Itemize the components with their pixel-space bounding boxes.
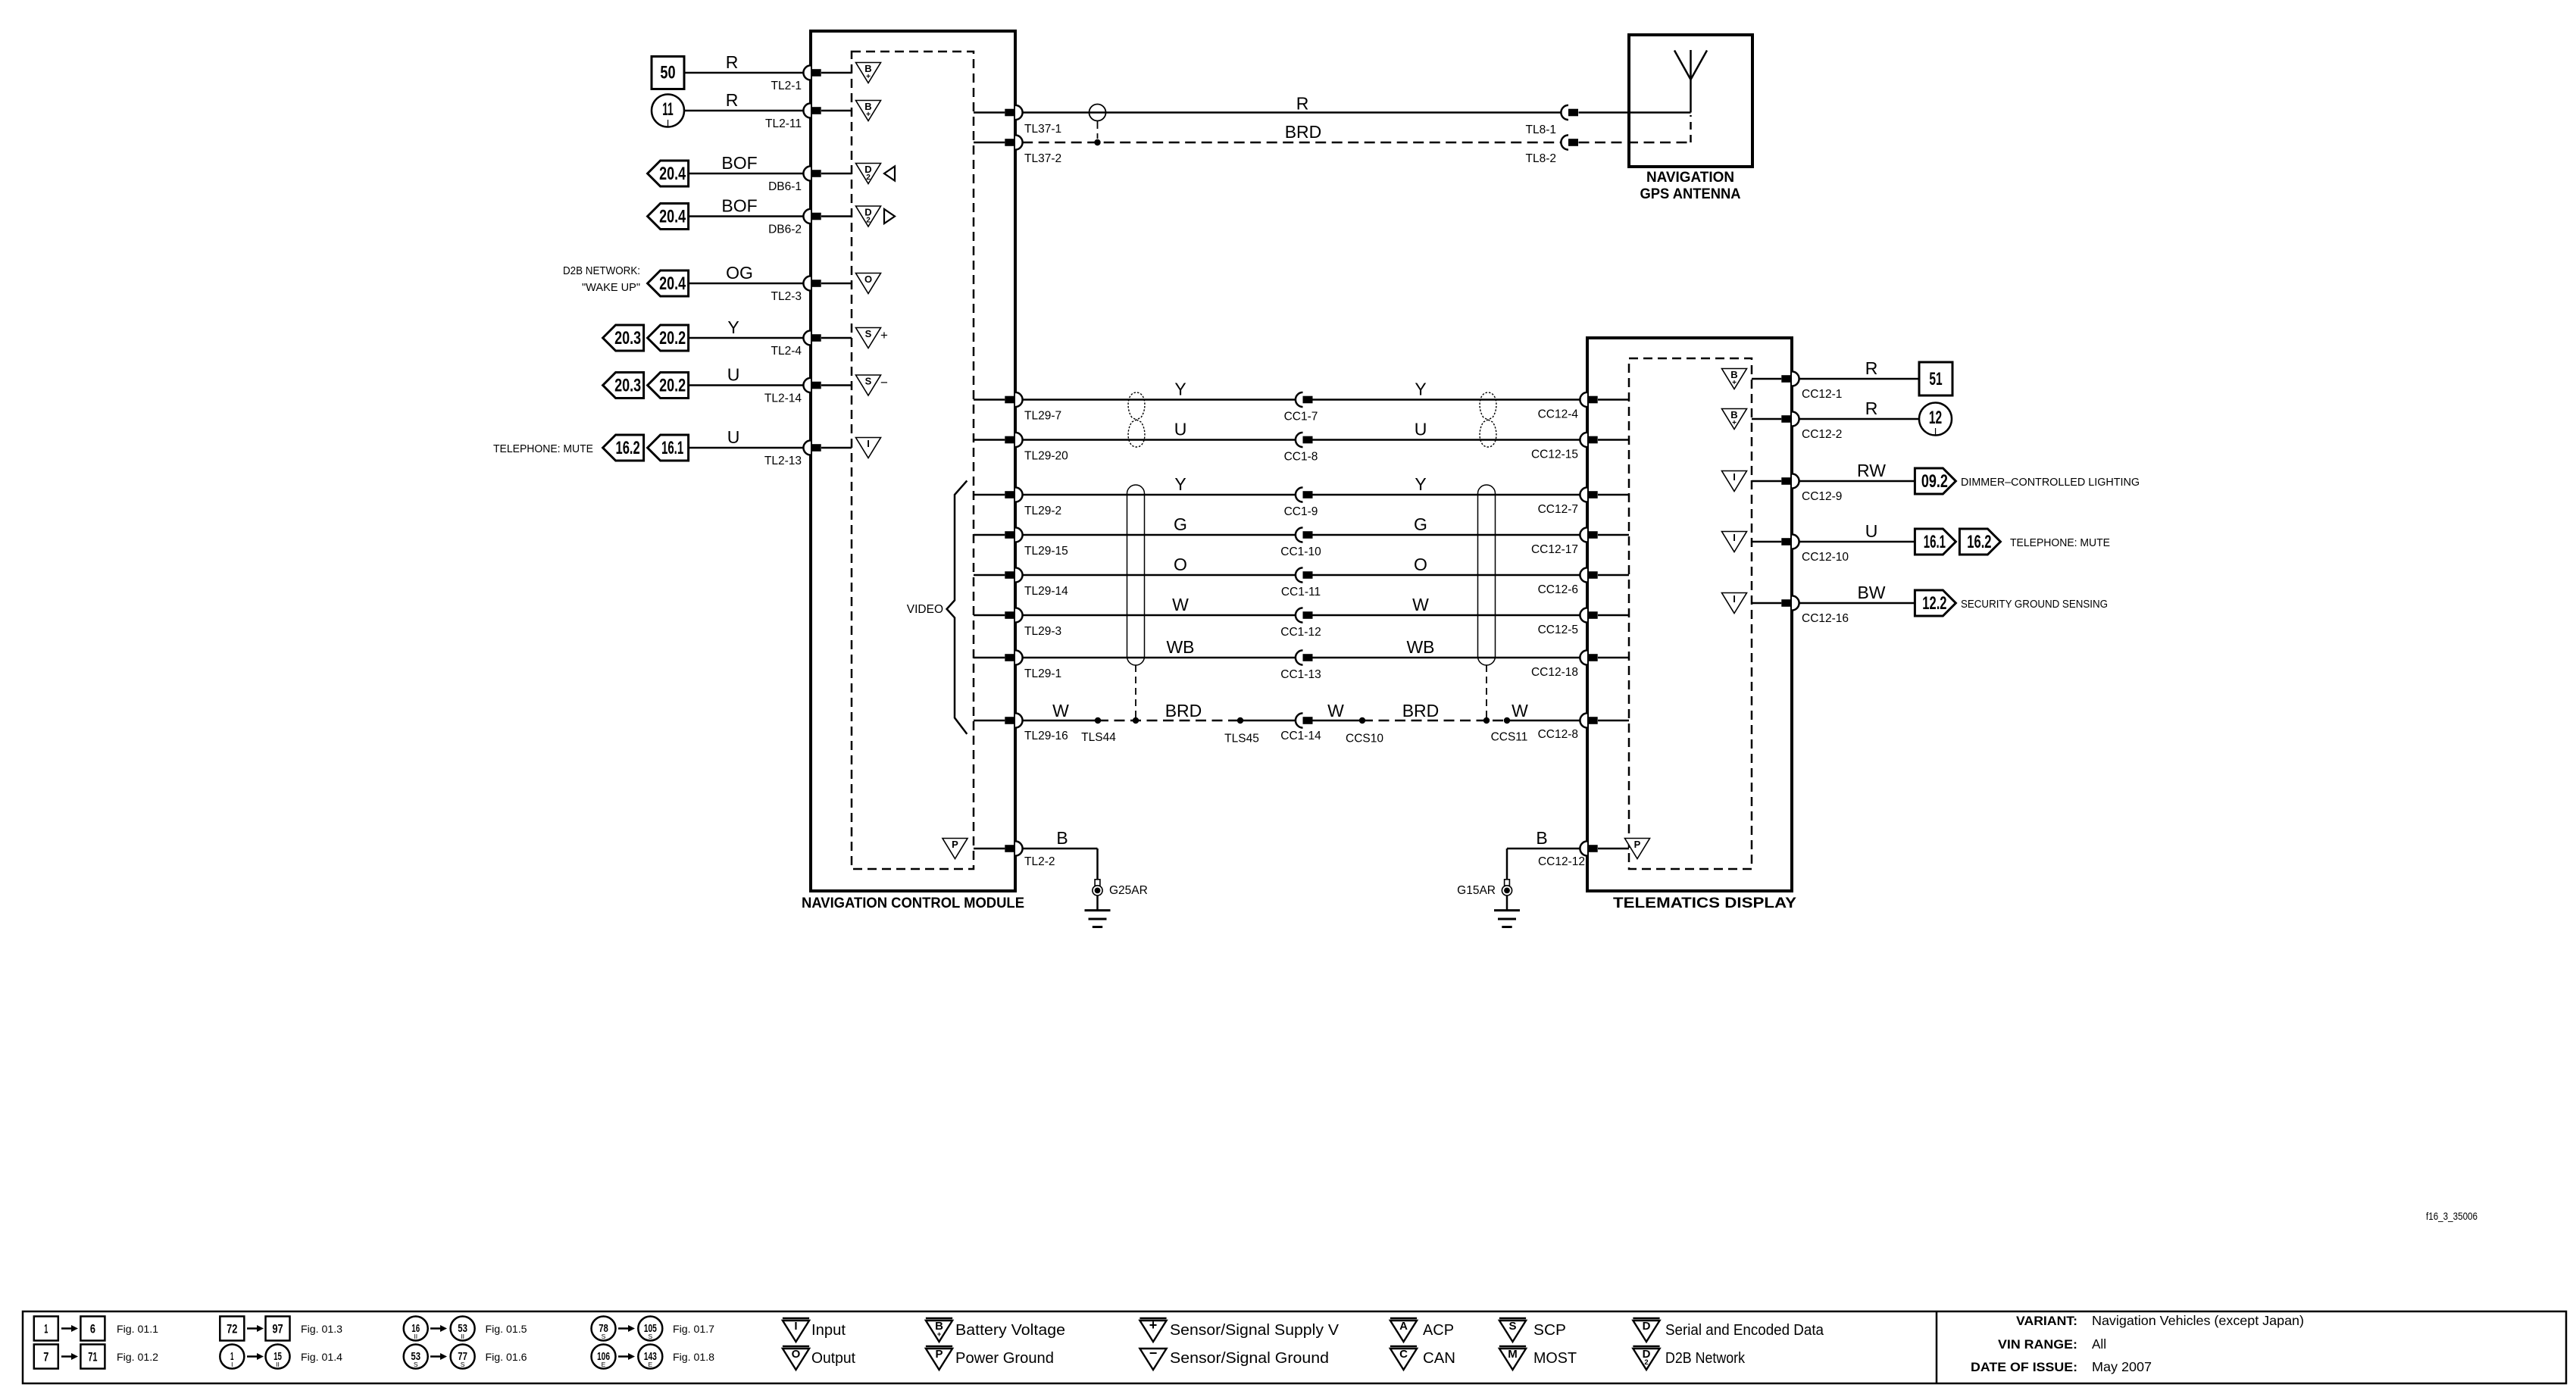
connector CC1-10 [1280, 527, 1321, 558]
svg-text:GPS ANTENNA: GPS ANTENNA [1640, 186, 1741, 202]
telematics display box [1587, 338, 1792, 891]
video brace [907, 481, 968, 734]
svg-text:CC12-1: CC12-1 [1802, 388, 1842, 401]
ground G15AR [1457, 880, 1520, 927]
legend fig 01.7 [592, 1317, 715, 1341]
wire BOF to DB6-2 [689, 196, 803, 217]
svg-text:W: W [1327, 701, 1344, 720]
connector CC1-8 [1284, 433, 1318, 464]
splice TLS44 [1081, 717, 1116, 744]
svg-text:All: All [2092, 1336, 2106, 1352]
navigation control module inner dashed box [852, 52, 974, 869]
svg-text:TL29-7: TL29-7 [1024, 410, 1061, 423]
svg-text:S: S [414, 1361, 418, 1368]
pin TL2-14 [764, 378, 852, 405]
legend bar frame [23, 1311, 2566, 1383]
svg-text:CCS10: CCS10 [1346, 733, 1383, 745]
title navigation control module [802, 895, 1024, 911]
svg-text:S: S [865, 375, 872, 386]
svg-text:CC1-12: CC1-12 [1280, 626, 1321, 639]
wire W TLS45 to CC1-14 [1240, 720, 1296, 722]
legend symbol power ground [926, 1346, 1054, 1370]
svg-text:16.1: 16.1 [1924, 532, 1946, 552]
svg-text:50: 50 [660, 63, 675, 83]
svg-text:20.4: 20.4 [659, 207, 686, 227]
svg-text:Y: Y [727, 317, 739, 337]
wire BRD TL37-2 to TL8-2 (dashed) [1022, 122, 1561, 142]
svg-text:CC12-12: CC12-12 [1538, 855, 1585, 868]
connector CC1-7 [1284, 392, 1318, 424]
svg-text:Y: Y [1174, 474, 1186, 494]
svg-text:CC12-4: CC12-4 [1538, 408, 1579, 421]
svg-text:Navigation Vehicles (except Ja: Navigation Vehicles (except Japan) [2092, 1313, 2304, 1328]
legend fig 01.1 [34, 1317, 158, 1341]
svg-text:f16_3_35006: f16_3_35006 [2426, 1211, 2478, 1222]
svg-text:72: 72 [227, 1322, 237, 1336]
pin CC12-2 [1752, 411, 1842, 441]
svg-text:Power Ground: Power Ground [955, 1350, 1054, 1367]
svg-text:TL29-16: TL29-16 [1024, 730, 1068, 742]
wire Y to TL2-4 [689, 317, 803, 338]
symbol O at TL2-3 [856, 273, 881, 294]
svg-text:CC1-9: CC1-9 [1284, 505, 1318, 518]
svg-text:I: I [1733, 471, 1736, 483]
connector CC1-9 [1284, 487, 1318, 518]
wire U from CC12-10 [1799, 521, 1915, 542]
svg-text:+: + [866, 111, 871, 119]
svg-text:NAVIGATION CONTROL MODULE: NAVIGATION CONTROL MODULE [802, 895, 1024, 911]
wire W CC1-12 to CC12-5 [1313, 595, 1580, 615]
wire U to TL2-13 [689, 427, 803, 448]
svg-text:RW: RW [1857, 461, 1886, 480]
wire R TL37-1 to TL8-1 [1022, 94, 1561, 114]
pin CC12-9 [1752, 474, 1842, 503]
svg-text:II: II [414, 1333, 417, 1340]
svg-text:71: 71 [88, 1350, 97, 1364]
wire O TL29-14 to CC1-11 [1022, 555, 1296, 575]
pin CC12-12 [1538, 841, 1629, 868]
wire BOF to DB6-1 [689, 153, 803, 173]
pin CC12-1 [1752, 371, 1842, 401]
svg-text:TL2-13: TL2-13 [764, 455, 802, 467]
svg-text:D: D [1643, 1320, 1651, 1333]
legend symbol most [1499, 1346, 1577, 1370]
pin CC12-8 [1538, 713, 1629, 741]
pin CC12-15 [1531, 433, 1629, 461]
svg-text:09.2: 09.2 [1921, 471, 1948, 492]
wire R to TL2-1 [684, 52, 803, 73]
svg-text:+: + [937, 1330, 942, 1339]
pin TL37-1 [974, 105, 1061, 136]
svg-text:Fig. 01.3: Fig. 01.3 [301, 1323, 342, 1335]
svg-text:6: 6 [90, 1322, 95, 1336]
legend fig 01.8 [592, 1345, 715, 1369]
svg-text:I: I [1934, 426, 1937, 437]
wire R from CC12-2 [1799, 399, 1919, 419]
symbol I at CC12-16 [1722, 593, 1747, 614]
svg-text:B: B [1536, 828, 1547, 848]
svg-text:B: B [1056, 828, 1068, 848]
pin TL29-15 [974, 527, 1068, 558]
wire U to TL2-14 [689, 365, 803, 386]
pin TL29-16 [974, 713, 1068, 742]
svg-text:CC1-11: CC1-11 [1281, 586, 1321, 599]
svg-text:−: − [1149, 1346, 1158, 1361]
svg-text:CAN: CAN [1423, 1350, 1455, 1367]
page arrows 20.3 20.2 (TL2-4) [603, 325, 689, 351]
svg-text:TL2-14: TL2-14 [764, 392, 802, 405]
legend symbol scp [1499, 1318, 1566, 1342]
wire BRD inside antenna box (dashed) [1579, 115, 1691, 142]
wire G TL29-15 to CC1-10 [1022, 514, 1296, 535]
symbol D2 at DB6-2 [856, 206, 881, 227]
svg-text:Y: Y [1415, 474, 1426, 494]
wire G CC1-10 to CC12-17 [1313, 514, 1580, 535]
svg-text:CCS11: CCS11 [1491, 731, 1528, 744]
legend symbol sensor ground [1140, 1346, 1329, 1370]
svg-text:NAVIGATION: NAVIGATION [1646, 170, 1734, 186]
wire B TL2-2 to G25AR [1022, 828, 1097, 880]
svg-text:P: P [952, 839, 958, 850]
svg-text:VIDEO: VIDEO [907, 603, 943, 616]
pin TL2-2 [974, 841, 1055, 868]
svg-text:20.4: 20.4 [659, 164, 686, 184]
wire W TL29-3 to CC1-12 [1022, 595, 1296, 615]
svg-text:R: R [1865, 399, 1878, 418]
legend symbol acp [1390, 1318, 1454, 1342]
svg-text:U: U [727, 427, 740, 447]
legend fig 01.2 [34, 1345, 158, 1369]
title navigation gps antenna [1640, 170, 1741, 202]
legend symbol can [1390, 1346, 1455, 1370]
svg-text:97: 97 [272, 1322, 283, 1336]
splice CCS10 [1346, 717, 1383, 745]
svg-text:TELEPHONE: MUTE: TELEPHONE: MUTE [2010, 536, 2110, 549]
svg-text:CC12-5: CC12-5 [1538, 624, 1578, 636]
svg-text:TL2-4: TL2-4 [771, 345, 802, 358]
svg-text:CC12-7: CC12-7 [1538, 503, 1578, 516]
svg-text:May 2007: May 2007 [2092, 1359, 2152, 1374]
svg-text:20.2: 20.2 [659, 376, 686, 396]
svg-text:W: W [1412, 595, 1429, 614]
svg-text:BOF: BOF [721, 153, 757, 173]
symbol B+ at TL2-11 [856, 101, 881, 121]
svg-text:Y: Y [1174, 380, 1186, 399]
svg-text:DIMMER–CONTROLLED LIGHTING: DIMMER–CONTROLLED LIGHTING [1961, 476, 2140, 489]
svg-text:CC12-18: CC12-18 [1531, 666, 1578, 679]
text TELEPHONE MUTE left [493, 442, 593, 455]
wire R from CC12-1 [1799, 358, 1919, 379]
svg-text:TL29-14: TL29-14 [1024, 585, 1068, 598]
svg-text:Fig. 01.5: Fig. 01.5 [486, 1323, 527, 1335]
pin TL2-11 [765, 103, 852, 130]
pin TL29-14 [974, 567, 1068, 598]
legend fig 01.4 [220, 1345, 342, 1369]
svg-text:O: O [1414, 555, 1427, 574]
svg-text:E: E [648, 1361, 652, 1368]
svg-text:II: II [276, 1361, 280, 1368]
symbol B+ at CC12-1 [1722, 369, 1747, 389]
svg-text:ACP: ACP [1423, 1322, 1454, 1339]
svg-text:U: U [1865, 521, 1878, 541]
svg-text:CC1-10: CC1-10 [1280, 545, 1321, 558]
twisted pair symbol left [1128, 392, 1145, 447]
connector CC1-11 [1281, 567, 1321, 599]
power feed box 51 [1919, 362, 1952, 395]
arrowhead left at DB6-1 [884, 167, 895, 181]
variant block [1971, 1313, 2304, 1374]
legend fig 01.5 [404, 1317, 527, 1341]
svg-text:Serial and Encoded Data: Serial and Encoded Data [1665, 1322, 1824, 1339]
pin TL29-2 [974, 487, 1061, 517]
pin TL29-7 [974, 392, 1061, 423]
svg-text:I: I [667, 117, 670, 129]
svg-text:SECURITY GROUND SENSING: SECURITY GROUND SENSING [1961, 598, 2108, 611]
svg-text:2: 2 [1644, 1358, 1648, 1367]
svg-text:Fig. 01.7: Fig. 01.7 [673, 1323, 714, 1335]
legend fig 01.3 [220, 1317, 342, 1341]
svg-text:Fig. 01.8: Fig. 01.8 [673, 1351, 714, 1363]
svg-text:S: S [1508, 1320, 1516, 1333]
pin CC12-7 [1538, 487, 1629, 516]
pin TL2-4 [771, 330, 852, 358]
wire BRD TLS44 to TLS45 (dashed) [1098, 701, 1240, 720]
svg-text:+: + [1732, 379, 1737, 387]
svg-text:−: − [880, 376, 888, 390]
page arrow 20.4 (TL2-3) [648, 270, 689, 296]
splice CCS11 [1491, 717, 1528, 744]
svg-text:20.3: 20.3 [614, 328, 641, 348]
pin DB6-1 [768, 166, 852, 193]
svg-text:TL29-1: TL29-1 [1024, 667, 1061, 680]
svg-text:TL29-2: TL29-2 [1024, 505, 1061, 517]
connector CC1-12 [1280, 608, 1321, 639]
svg-text:20.2: 20.2 [659, 328, 686, 348]
svg-text:G25AR: G25AR [1109, 884, 1148, 897]
symbol B+ at TL2-1 [856, 63, 881, 83]
svg-text:Fig. 01.2: Fig. 01.2 [117, 1351, 158, 1363]
svg-text:16.1: 16.1 [661, 438, 683, 458]
title telematics display [1613, 895, 1796, 911]
svg-text:VARIANT:: VARIANT: [2016, 1314, 2077, 1328]
svg-text:Battery Voltage: Battery Voltage [955, 1322, 1065, 1339]
svg-text:2: 2 [866, 173, 871, 182]
connector TL8-2 [1526, 135, 1579, 165]
svg-text:CC12-15: CC12-15 [1531, 449, 1578, 461]
navigation control module box [811, 31, 1015, 891]
svg-text:+: + [1149, 1317, 1158, 1333]
pin TL29-3 [974, 608, 1061, 638]
svg-text:TL37-1: TL37-1 [1024, 123, 1061, 136]
svg-text:12: 12 [1929, 408, 1942, 428]
svg-text:S: S [865, 328, 872, 339]
svg-text:P: P [935, 1348, 943, 1361]
wire WB CC1-13 to CC12-18 [1313, 637, 1580, 658]
svg-text:P: P [1634, 839, 1641, 850]
svg-text:WB: WB [1166, 637, 1194, 657]
navigation gps antenna box [1629, 35, 1752, 167]
connector CC1-13 [1280, 650, 1321, 681]
svg-text:CC12-2: CC12-2 [1802, 428, 1842, 441]
page arrow 12.2 security ground sensing [1915, 590, 2108, 616]
page arrow 09.2 dimmer [1915, 468, 2140, 494]
svg-text:BOF: BOF [721, 196, 757, 216]
page arrow 20.4 (DB6-1) [648, 161, 689, 186]
pin TL2-1 [771, 65, 852, 92]
svg-text:DB6-2: DB6-2 [768, 223, 802, 236]
pin DB6-2 [768, 209, 852, 236]
svg-text:D2B Network: D2B Network [1665, 1350, 1746, 1367]
svg-text:TLS45: TLS45 [1224, 733, 1259, 745]
telematics display inner dashed box [1629, 358, 1752, 869]
svg-text:20.3: 20.3 [614, 376, 641, 396]
svg-text:II: II [461, 1333, 464, 1340]
page arrows 16.1 16.2 telephone mute [1915, 529, 2110, 555]
svg-text:+: + [1732, 419, 1737, 427]
legend symbol d2b network [1633, 1346, 1745, 1370]
pin CC12-4 [1538, 392, 1629, 421]
page arrows 16.2 16.1 (TL2-13) [603, 435, 689, 461]
svg-text:7: 7 [43, 1350, 48, 1364]
svg-text:TL2-1: TL2-1 [771, 80, 802, 92]
symbol B+ at CC12-2 [1722, 409, 1747, 430]
twisted pair symbol right [1480, 392, 1496, 447]
svg-text:20.4: 20.4 [659, 273, 686, 294]
power feed circle 11 [652, 95, 684, 130]
svg-text:TL29-3: TL29-3 [1024, 625, 1061, 638]
svg-text:R: R [1296, 94, 1309, 114]
shield capsule right [1478, 485, 1496, 724]
svg-text:Fig. 01.4: Fig. 01.4 [301, 1351, 342, 1363]
symbol I at CC12-9 [1722, 471, 1747, 492]
wire B CC12-12 to G15AR [1507, 828, 1580, 880]
svg-text:VIN RANGE:: VIN RANGE: [1998, 1337, 2077, 1352]
wire R inside antenna box [1579, 111, 1691, 114]
wire U TL29-20 to CC1-8 [1022, 420, 1296, 440]
wire Y TL29-7 to CC1-7 [1022, 380, 1296, 400]
text D2B NETWORK WAKE UP [563, 264, 640, 294]
svg-text:U: U [1174, 420, 1187, 439]
svg-text:S: S [648, 1333, 652, 1340]
figure number [2426, 1211, 2478, 1222]
svg-text:U: U [1415, 420, 1427, 439]
svg-text:Input: Input [811, 1322, 846, 1339]
svg-text:Fig. 01.1: Fig. 01.1 [117, 1323, 158, 1335]
svg-text:TL2-11: TL2-11 [765, 117, 802, 130]
svg-text:Sensor/Signal Supply V: Sensor/Signal Supply V [1170, 1322, 1340, 1339]
svg-text:U: U [727, 365, 740, 385]
symbol S+ at TL2-4 [856, 328, 889, 348]
svg-text:2: 2 [866, 217, 871, 225]
wire OG to TL2-3 [689, 263, 803, 283]
svg-text:11: 11 [662, 99, 673, 120]
svg-text:I: I [867, 438, 870, 449]
power feed box 50 [652, 57, 684, 89]
svg-text:DATE OF ISSUE:: DATE OF ISSUE: [1971, 1360, 2077, 1374]
symbol I at TL2-13 [856, 438, 881, 458]
wire BRD CCS10 to CCS11 (dashed) [1362, 701, 1507, 720]
shield capsule left [1127, 485, 1145, 724]
wire Y TL29-2 to CC1-9 [1022, 474, 1296, 495]
svg-text:D2B NETWORK:: D2B NETWORK: [563, 264, 640, 277]
svg-text:16.2: 16.2 [616, 438, 640, 458]
pin TL29-20 [974, 433, 1068, 463]
arrowhead right at DB6-2 [884, 209, 895, 223]
symbol D2 at DB6-1 [856, 164, 881, 184]
svg-text:51: 51 [1929, 369, 1942, 389]
svg-text:S: S [461, 1361, 465, 1368]
svg-text:A: A [1399, 1320, 1408, 1333]
svg-text:CC1-13: CC1-13 [1280, 668, 1321, 681]
wire WB TL29-1 to CC1-13 [1022, 637, 1296, 658]
svg-text:BRD: BRD [1402, 701, 1440, 720]
svg-text:Y: Y [1415, 380, 1426, 399]
inline splice circle on R wire [1089, 105, 1106, 146]
svg-text:R: R [726, 90, 739, 110]
svg-text:I: I [1733, 593, 1736, 605]
svg-text:W: W [1052, 701, 1069, 720]
pin CC12-17 [1531, 527, 1629, 556]
svg-text:M: M [1508, 1348, 1518, 1361]
svg-text:1: 1 [44, 1322, 48, 1336]
wire Y CC1-9 to CC12-7 [1313, 474, 1580, 495]
svg-text:G: G [1174, 514, 1187, 534]
svg-text:Output: Output [811, 1350, 855, 1367]
svg-text:DB6-1: DB6-1 [768, 180, 802, 193]
svg-text:TELEPHONE: MUTE: TELEPHONE: MUTE [493, 442, 593, 455]
legend symbol battery voltage [926, 1318, 1065, 1342]
svg-text:G: G [1414, 514, 1427, 534]
wire BW from CC12-16 [1799, 583, 1915, 603]
svg-text:CC1-8: CC1-8 [1284, 451, 1318, 464]
connector CC1-14 [1280, 713, 1321, 742]
svg-text:W: W [1512, 701, 1528, 720]
symbol S− at TL2-14 [856, 375, 889, 395]
svg-text:I: I [794, 1320, 797, 1333]
svg-text:TL2-2: TL2-2 [1024, 855, 1055, 868]
symbol P at TL2-2 [943, 839, 968, 859]
page arrow 20.4 (DB6-2) [648, 204, 689, 230]
legend symbol input [783, 1318, 846, 1342]
wire O CC1-11 to CC12-6 [1313, 555, 1580, 575]
svg-text:CC12-10: CC12-10 [1802, 551, 1849, 564]
wire W TL29-16 to TLS44 [1022, 701, 1098, 720]
svg-text:+: + [880, 328, 888, 342]
svg-text:MOST: MOST [1533, 1350, 1577, 1367]
svg-text:CC1-14: CC1-14 [1280, 730, 1321, 742]
legend fig 01.6 [404, 1345, 527, 1369]
svg-text:S: S [602, 1333, 606, 1340]
svg-text:O: O [864, 273, 872, 285]
legend symbol serial data [1633, 1318, 1824, 1342]
svg-text:W: W [1172, 595, 1189, 614]
connector TL8-1 [1526, 105, 1579, 136]
svg-text:12.2: 12.2 [1922, 593, 1946, 614]
svg-text:CC12-6: CC12-6 [1538, 583, 1578, 596]
svg-text:+: + [866, 73, 871, 81]
svg-text:TL2-3: TL2-3 [771, 290, 802, 303]
pin CC12-6 [1538, 567, 1629, 596]
svg-text:16.2: 16.2 [1967, 532, 1991, 552]
svg-text:G15AR: G15AR [1457, 884, 1496, 897]
svg-text:CC12-17: CC12-17 [1531, 543, 1578, 556]
svg-text:R: R [726, 52, 739, 72]
svg-text:R: R [1865, 358, 1878, 378]
splice TLS45 [1224, 717, 1259, 745]
page arrows 20.3 20.2 (TL2-14) [603, 373, 689, 399]
svg-text:OG: OG [726, 263, 753, 283]
pin CC12-10 [1752, 534, 1849, 564]
